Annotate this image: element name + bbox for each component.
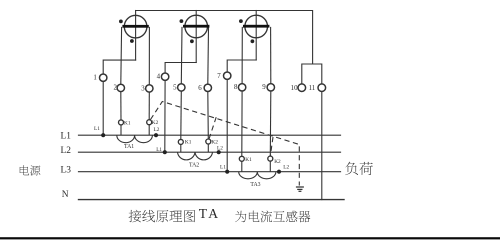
wire element2 jog to terminal 4 [165,63,196,74]
bottom border bar [0,237,500,239]
wire terminal7 to L3 node [226,79,228,171]
wire element3 bar-left to terminal 8 [241,27,243,83]
svg-text:L2: L2 [61,146,72,156]
svg-text:TA2: TA2 [189,162,199,168]
svg-text:9: 9 [262,84,266,91]
svg-text:2: 2 [113,84,117,91]
terminal 7 [224,72,231,79]
svg-text:L2: L2 [154,127,160,133]
svg-text:L1: L1 [94,126,100,132]
svg-text:L1: L1 [220,165,226,171]
current coil bar element 2 [183,25,209,28]
current coil bar element 1 [122,25,148,28]
svg-text:K2: K2 [152,120,159,126]
terminal 6 [204,84,211,91]
wire line L2 [79,151,341,153]
svg-text:K2: K2 [211,139,218,145]
wire line L3 [79,171,341,173]
wire element1 bar-right to terminal 3 [148,27,150,85]
svg-text:10: 10 [291,85,298,92]
wire element2 bar-left to terminal 5 [180,27,183,83]
wire top supply bus [136,11,313,65]
meter element M3 circle [245,15,268,38]
wire terminal4 to L2 node [164,80,166,152]
ground [296,187,304,191]
transformer TA3 [220,156,290,188]
wire vertical through element 2 [195,11,197,63]
wire vertical through element 3 [255,11,257,61]
svg-text:TA1: TA1 [124,144,134,150]
node TA3 primary L1 [225,170,229,174]
caption text [129,210,196,222]
svg-text:TA3: TA3 [250,182,260,188]
wire terminal5 to TA2 K1 [180,91,183,139]
svg-text:K1: K1 [124,120,131,126]
svg-text:K1: K1 [245,157,252,163]
wire line N [79,199,345,201]
transformer TA2 [156,139,223,168]
terminal 4 [161,73,168,80]
svg-text:TA: TA [199,206,221,221]
wire terminal8 to TA3 K1 [241,91,243,156]
terminal 2 [117,84,124,91]
label load [345,162,373,175]
wire vertical through element 1 [135,11,137,61]
svg-text:7: 7 [217,73,221,80]
svg-text:L2: L2 [217,145,223,151]
svg-text:L1: L1 [156,147,162,153]
svg-text:L1: L1 [61,131,72,141]
wire element3 bar-right to terminal 9 [270,27,272,83]
svg-text:5: 5 [173,84,177,91]
svg-text:L3: L3 [61,165,72,175]
terminal 8 [238,84,245,91]
svg-text:L2: L2 [283,165,289,171]
polarity dot element2 top [180,19,184,23]
svg-text:N: N [62,190,69,200]
polarity dot element2 bottom [190,39,194,43]
wire terminal3 to TA1 K2 [148,92,150,120]
node TA1 primary L1 [101,133,105,137]
meter element M1 circle [124,15,147,38]
wire element3 jog to terminal 7 [227,60,256,72]
wire terminal11 to N line [321,92,323,200]
wire earth dashed polyline [151,102,300,186]
svg-text:8: 8 [234,84,238,91]
svg-text:K1: K1 [185,140,192,146]
svg-text:1: 1 [93,75,97,82]
svg-text:11: 11 [309,85,316,92]
current coil bar element 3 [243,25,269,28]
wire terminal9 to TA3 K2 [269,91,272,156]
wire terminal6 to TA2 K2 [207,91,210,139]
terminal 9 [267,84,274,91]
node TA2 primary L2 [217,150,221,154]
wire bracket terminals 10 11 [302,64,322,84]
wire element2 bar-right to terminal 6 [207,27,210,84]
svg-text:3: 3 [141,86,145,93]
wire line L1 [79,134,341,136]
label power source [20,165,41,175]
terminal 10 [298,84,306,92]
wire dashed branch to TA2 K2 [209,117,216,139]
svg-text:K2: K2 [274,159,281,165]
polarity dot element1 top [119,20,123,24]
terminal 3 [146,85,153,92]
polarity dot element3 top [239,19,243,23]
terminal 1 [100,74,107,81]
node TA1 primary L2 [154,133,158,137]
transformer TA1 [94,120,160,150]
wire terminal2 to TA1 K1 [120,92,122,121]
wire element1 jog to terminal 1 [103,60,135,74]
terminal 5 [178,84,185,91]
node TA3 primary L2 [277,170,281,174]
wire element1 bar-left to terminal 2 [120,27,123,84]
terminal 11 [318,84,326,92]
polarity dot element3 bottom [251,39,255,43]
wire terminal1 to L1 node [102,81,104,135]
svg-text:4: 4 [157,74,161,81]
svg-text:6: 6 [198,85,202,92]
meter element M2 circle [185,15,208,38]
node TA2 primary L1 [163,150,167,154]
wire dashed branch to TA3 K2 [270,137,273,156]
polarity dot element1 bottom [130,39,134,43]
